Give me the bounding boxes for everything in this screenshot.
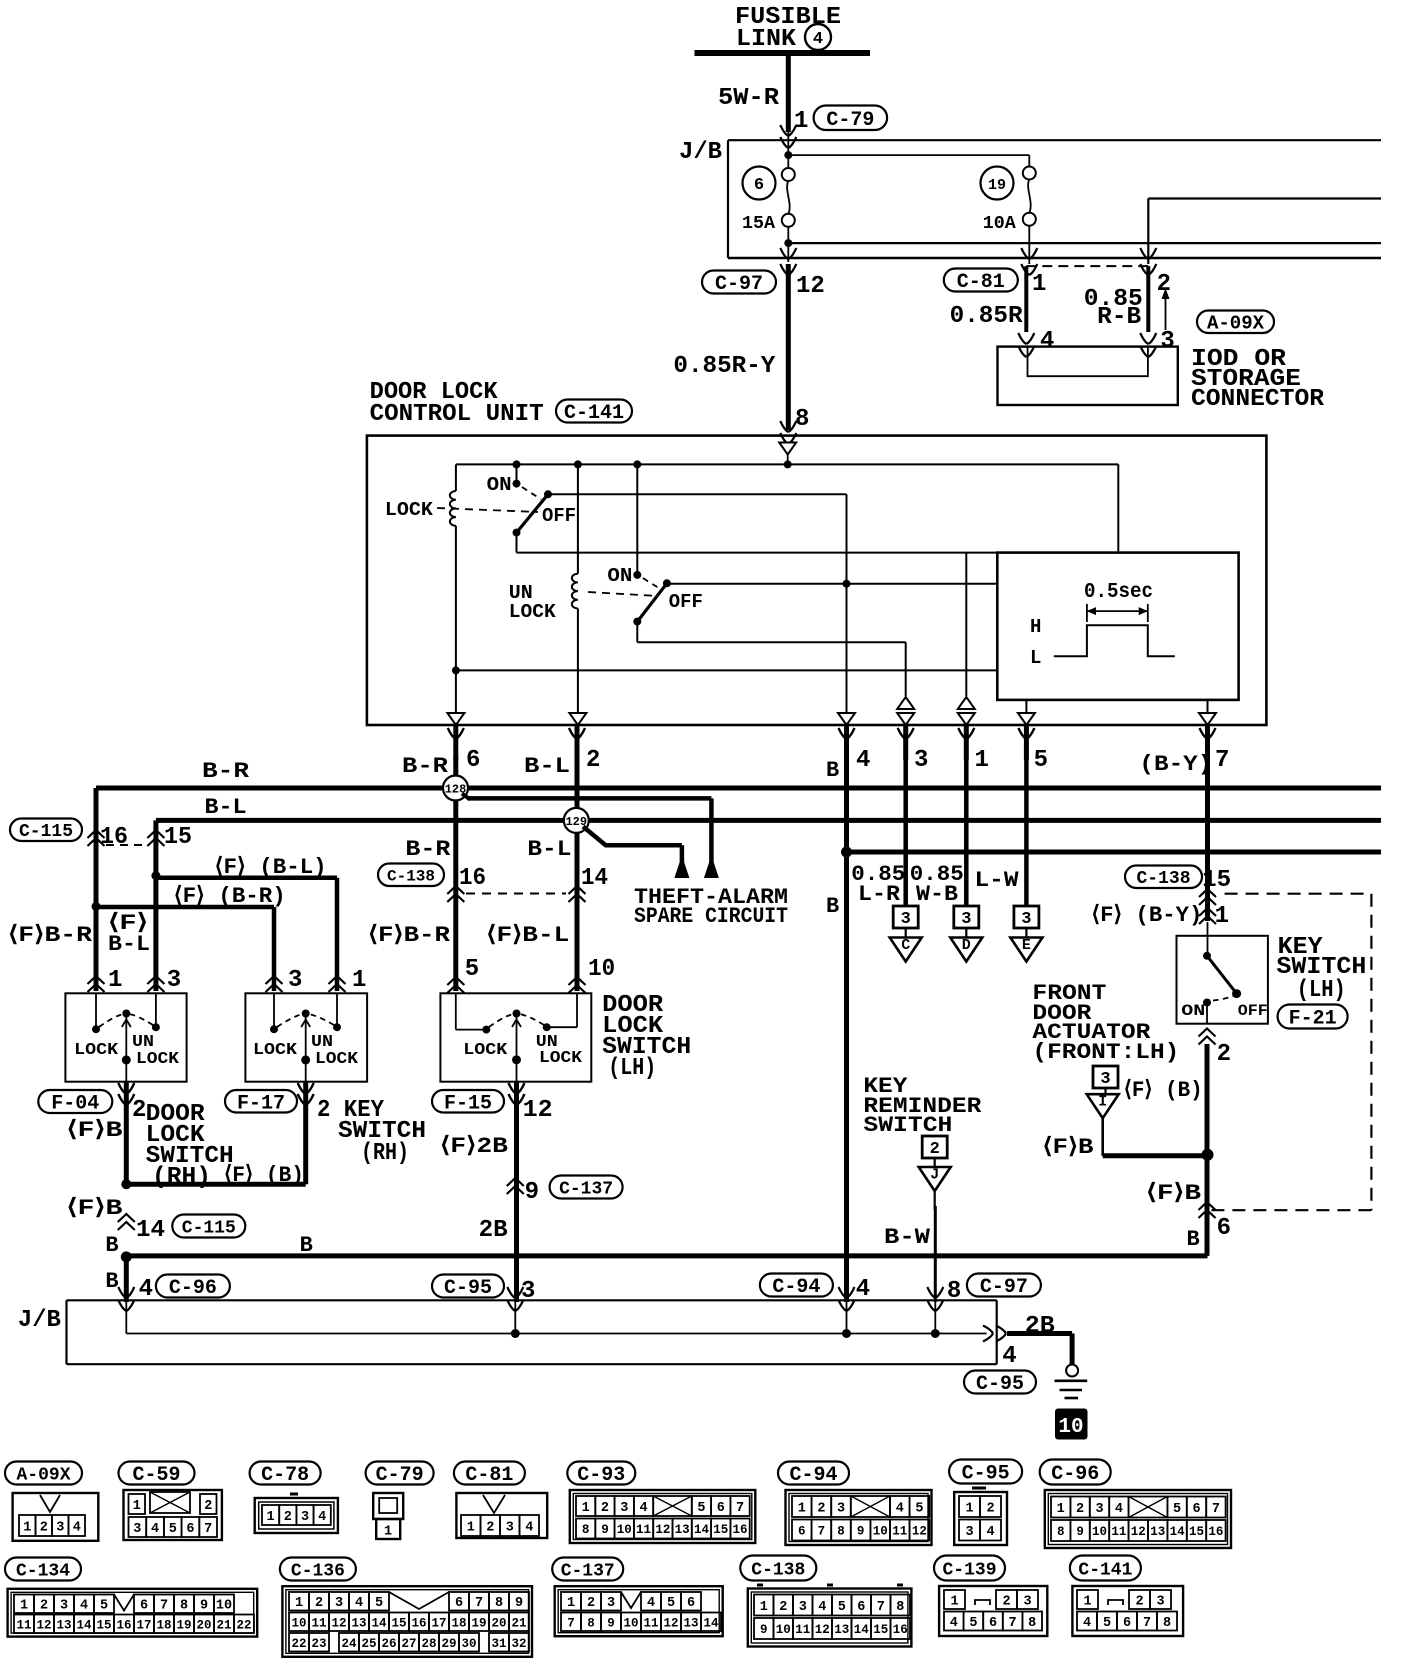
svg-text:B: B xyxy=(105,1233,118,1258)
svg-text:8: 8 xyxy=(1057,1525,1065,1539)
svg-text:4: 4 xyxy=(525,1520,533,1535)
svg-text:C-59: C-59 xyxy=(132,1464,180,1487)
svg-text:OFF: OFF xyxy=(542,505,576,527)
svg-text:C-115: C-115 xyxy=(182,1218,236,1238)
svg-text:2: 2 xyxy=(817,1501,825,1516)
svg-text:OFF: OFF xyxy=(1238,1002,1268,1020)
svg-text:3: 3 xyxy=(799,1600,807,1615)
svg-text:C-137: C-137 xyxy=(561,1561,615,1581)
svg-text:5: 5 xyxy=(465,956,479,983)
svg-text:3: 3 xyxy=(901,910,911,929)
svg-text:C-95: C-95 xyxy=(976,1373,1024,1396)
svg-text:2: 2 xyxy=(986,1501,994,1516)
svg-text:3: 3 xyxy=(607,1596,615,1611)
svg-text:10: 10 xyxy=(216,1599,232,1614)
svg-text:26: 26 xyxy=(381,1637,396,1651)
svg-text:C: C xyxy=(901,937,910,954)
svg-text:3: 3 xyxy=(1100,1070,1110,1089)
svg-text:C-79: C-79 xyxy=(376,1464,424,1487)
svg-text:11: 11 xyxy=(311,1616,326,1630)
svg-text:3: 3 xyxy=(1095,1502,1103,1517)
svg-text:3: 3 xyxy=(620,1501,628,1516)
svg-text:5: 5 xyxy=(1173,1502,1181,1517)
svg-text:20: 20 xyxy=(491,1616,506,1630)
svg-text:C-81: C-81 xyxy=(957,271,1005,294)
svg-text:⟨F⟩ (B-Y): ⟨F⟩ (B-Y) xyxy=(1091,903,1202,928)
svg-text:25: 25 xyxy=(361,1637,376,1651)
svg-text:4: 4 xyxy=(73,1520,81,1535)
svg-text:3: 3 xyxy=(1021,910,1031,929)
svg-text:2: 2 xyxy=(779,1600,787,1615)
svg-text:6: 6 xyxy=(989,1616,997,1631)
svg-text:19: 19 xyxy=(988,177,1006,194)
svg-text:2: 2 xyxy=(1002,1594,1010,1609)
svg-text:F-04: F-04 xyxy=(51,1093,99,1116)
svg-text:11: 11 xyxy=(636,1523,651,1537)
svg-text:L: L xyxy=(1030,647,1041,669)
svg-text:C-96: C-96 xyxy=(169,1277,217,1300)
svg-text:9: 9 xyxy=(525,1179,539,1206)
svg-text:13: 13 xyxy=(351,1616,366,1630)
svg-text:J/B: J/B xyxy=(679,139,722,166)
svg-text:4: 4 xyxy=(896,1501,904,1516)
svg-text:10: 10 xyxy=(291,1616,306,1630)
svg-text:C-138: C-138 xyxy=(751,1560,805,1580)
svg-text:C-79: C-79 xyxy=(826,109,874,132)
svg-text:4: 4 xyxy=(1083,1616,1091,1631)
svg-text:12: 12 xyxy=(815,1623,830,1637)
svg-text:12: 12 xyxy=(36,1618,51,1632)
svg-text:C-138: C-138 xyxy=(1136,869,1190,889)
svg-text:1: 1 xyxy=(467,1520,475,1535)
svg-text:I: I xyxy=(1098,1094,1107,1111)
svg-text:C-138: C-138 xyxy=(387,868,435,886)
svg-text:2: 2 xyxy=(284,1510,292,1525)
svg-text:4: 4 xyxy=(80,1599,88,1614)
svg-text:3: 3 xyxy=(301,1510,309,1525)
svg-text:C-94: C-94 xyxy=(789,1464,837,1487)
svg-text:3: 3 xyxy=(506,1520,514,1535)
svg-text:8: 8 xyxy=(495,1596,503,1611)
svg-text:17: 17 xyxy=(136,1618,151,1632)
svg-text:ON: ON xyxy=(487,474,512,496)
svg-text:B: B xyxy=(826,894,839,919)
svg-text:15: 15 xyxy=(873,1623,888,1637)
svg-text:⟨F⟩ (B): ⟨F⟩ (B) xyxy=(224,1163,304,1188)
svg-text:14: 14 xyxy=(76,1618,92,1632)
svg-text:B-L: B-L xyxy=(524,754,570,779)
svg-text:24: 24 xyxy=(341,1637,357,1651)
svg-text:C-78: C-78 xyxy=(261,1464,309,1487)
svg-text:23: 23 xyxy=(311,1637,326,1651)
svg-text:1: 1 xyxy=(352,967,366,994)
svg-text:LOCK: LOCK xyxy=(509,601,557,623)
svg-text:3: 3 xyxy=(914,747,928,774)
svg-text:15: 15 xyxy=(164,824,192,851)
svg-text:4: 4 xyxy=(139,1276,153,1303)
svg-text:6: 6 xyxy=(1192,1502,1200,1517)
svg-text:J: J xyxy=(930,1166,939,1183)
svg-text:22: 22 xyxy=(291,1637,306,1651)
svg-text:2: 2 xyxy=(601,1501,609,1516)
svg-text:1: 1 xyxy=(384,1525,392,1540)
svg-text:14: 14 xyxy=(694,1523,710,1537)
svg-text:7: 7 xyxy=(1212,1502,1220,1517)
svg-text:4: 4 xyxy=(1115,1502,1123,1517)
svg-text:11: 11 xyxy=(1111,1525,1126,1539)
svg-text:0.5sec: 0.5sec xyxy=(1084,581,1153,604)
svg-text:3: 3 xyxy=(837,1501,845,1516)
svg-text:B: B xyxy=(105,1269,118,1294)
svg-text:6: 6 xyxy=(754,176,764,195)
svg-text:1: 1 xyxy=(133,1499,141,1514)
svg-text:8: 8 xyxy=(587,1616,595,1630)
svg-text:OFF: OFF xyxy=(669,591,703,613)
svg-text:18: 18 xyxy=(451,1616,466,1630)
svg-text:C-93: C-93 xyxy=(577,1464,625,1487)
svg-text:B-W: B-W xyxy=(884,1225,931,1250)
svg-text:6: 6 xyxy=(455,1596,463,1611)
svg-text:2: 2 xyxy=(586,747,600,774)
svg-text:15A: 15A xyxy=(742,214,775,234)
svg-text:4: 4 xyxy=(1002,1343,1016,1370)
svg-text:18: 18 xyxy=(156,1618,171,1632)
svg-text:8: 8 xyxy=(180,1599,188,1614)
svg-text:R-B: R-B xyxy=(1097,304,1141,331)
svg-text:4: 4 xyxy=(1040,328,1054,355)
svg-text:5: 5 xyxy=(838,1600,846,1615)
svg-text:14: 14 xyxy=(581,865,608,892)
svg-text:3: 3 xyxy=(335,1596,343,1611)
svg-text:2: 2 xyxy=(40,1520,48,1535)
svg-text:28: 28 xyxy=(421,1637,436,1651)
svg-text:(B-Y): (B-Y) xyxy=(1139,752,1212,777)
svg-text:7: 7 xyxy=(204,1522,212,1537)
svg-text:5: 5 xyxy=(1103,1616,1111,1631)
svg-text:C-115: C-115 xyxy=(19,822,73,842)
svg-text:10: 10 xyxy=(588,956,615,983)
svg-text:3: 3 xyxy=(288,967,302,994)
svg-text:16: 16 xyxy=(411,1616,426,1630)
svg-text:7: 7 xyxy=(1143,1616,1151,1631)
svg-text:6: 6 xyxy=(186,1522,194,1537)
svg-text:14: 14 xyxy=(854,1623,870,1637)
svg-text:3: 3 xyxy=(1156,1594,1164,1609)
svg-text:6: 6 xyxy=(717,1501,725,1516)
svg-text:12: 12 xyxy=(655,1523,670,1537)
svg-text:B: B xyxy=(1187,1227,1200,1252)
svg-text:9: 9 xyxy=(857,1525,865,1539)
svg-text:10A: 10A xyxy=(983,214,1016,234)
svg-text:6: 6 xyxy=(687,1596,695,1611)
svg-text:5: 5 xyxy=(969,1616,977,1631)
svg-text:⟨F⟩ (B-R): ⟨F⟩ (B-R) xyxy=(174,884,286,909)
svg-text:7: 7 xyxy=(160,1599,168,1614)
svg-text:30: 30 xyxy=(461,1637,476,1651)
svg-text:5: 5 xyxy=(169,1522,177,1537)
svg-text:22: 22 xyxy=(236,1618,251,1632)
svg-text:C-95: C-95 xyxy=(962,1463,1010,1486)
svg-text:LOCK: LOCK xyxy=(136,1050,180,1069)
svg-text:16: 16 xyxy=(459,865,486,892)
svg-text:1: 1 xyxy=(794,108,808,135)
svg-text:C-97: C-97 xyxy=(715,273,763,296)
svg-text:(LH): (LH) xyxy=(1297,977,1346,1004)
svg-text:7: 7 xyxy=(818,1525,826,1539)
svg-text:1: 1 xyxy=(1215,903,1229,930)
svg-text:5: 5 xyxy=(375,1596,383,1611)
svg-text:⟨F⟩ (B-L): ⟨F⟩ (B-L) xyxy=(215,855,327,880)
svg-text:1: 1 xyxy=(975,747,989,774)
svg-text:C-134: C-134 xyxy=(16,1561,70,1581)
svg-text:8: 8 xyxy=(795,406,809,433)
svg-text:31: 31 xyxy=(491,1637,506,1651)
svg-text:H: H xyxy=(1030,616,1041,638)
svg-text:10: 10 xyxy=(776,1623,791,1637)
svg-text:(LH): (LH) xyxy=(608,1055,656,1082)
svg-text:11: 11 xyxy=(643,1616,658,1630)
svg-text:C-96: C-96 xyxy=(1051,1463,1099,1486)
svg-text:3: 3 xyxy=(1160,328,1174,355)
svg-text:27: 27 xyxy=(401,1637,416,1651)
svg-text:3: 3 xyxy=(167,967,181,994)
svg-text:13: 13 xyxy=(675,1523,690,1537)
svg-text:1: 1 xyxy=(760,1600,768,1615)
svg-text:14: 14 xyxy=(371,1616,387,1630)
svg-text:13: 13 xyxy=(56,1618,71,1632)
svg-text:1: 1 xyxy=(582,1501,590,1516)
svg-text:⟨F⟩ (B): ⟨F⟩ (B) xyxy=(1124,1078,1203,1103)
svg-text:3: 3 xyxy=(56,1520,64,1535)
svg-text:14: 14 xyxy=(703,1616,719,1630)
svg-text:5: 5 xyxy=(697,1501,705,1516)
svg-text:15: 15 xyxy=(1189,1525,1204,1539)
svg-text:2: 2 xyxy=(315,1596,323,1611)
svg-text:4: 4 xyxy=(318,1510,326,1525)
svg-text:5: 5 xyxy=(100,1599,108,1614)
svg-text:21: 21 xyxy=(511,1616,526,1630)
svg-text:LOCK: LOCK xyxy=(315,1050,359,1069)
svg-text:1: 1 xyxy=(567,1596,575,1611)
svg-text:4: 4 xyxy=(813,30,823,49)
svg-text:8: 8 xyxy=(896,1600,904,1615)
svg-text:9: 9 xyxy=(1076,1525,1084,1539)
svg-text:14: 14 xyxy=(1170,1525,1186,1539)
svg-text:(RH): (RH) xyxy=(361,1140,409,1167)
svg-text:4: 4 xyxy=(986,1525,994,1540)
svg-text:A-09X: A-09X xyxy=(1207,313,1265,335)
svg-text:15: 15 xyxy=(391,1616,406,1630)
svg-text:B: B xyxy=(826,758,839,783)
svg-text:16: 16 xyxy=(893,1623,908,1637)
svg-text:15: 15 xyxy=(96,1618,111,1632)
svg-text:2: 2 xyxy=(1135,1594,1143,1609)
svg-text:C-136: C-136 xyxy=(291,1561,345,1581)
svg-text:12: 12 xyxy=(796,273,825,300)
svg-text:⟨F⟩B: ⟨F⟩B xyxy=(1146,1181,1201,1206)
svg-text:9: 9 xyxy=(515,1596,523,1611)
svg-text:B-L: B-L xyxy=(527,837,571,862)
svg-text:2: 2 xyxy=(1217,1041,1231,1068)
svg-text:3: 3 xyxy=(1023,1594,1031,1609)
svg-text:C-137: C-137 xyxy=(559,1179,613,1199)
svg-text:W-B: W-B xyxy=(916,882,958,907)
svg-text:4: 4 xyxy=(856,747,870,774)
svg-text:12: 12 xyxy=(331,1616,346,1630)
svg-text:1: 1 xyxy=(267,1510,275,1525)
svg-text:6: 6 xyxy=(466,747,480,774)
svg-text:12: 12 xyxy=(523,1097,553,1124)
svg-text:5: 5 xyxy=(667,1596,675,1611)
svg-text:1: 1 xyxy=(798,1501,806,1516)
svg-text:13: 13 xyxy=(834,1623,849,1637)
svg-text:B-R: B-R xyxy=(405,837,451,862)
svg-text:21: 21 xyxy=(216,1618,231,1632)
svg-text:6: 6 xyxy=(1217,1215,1231,1242)
svg-text:C-94: C-94 xyxy=(772,1276,820,1299)
svg-text:F-15: F-15 xyxy=(444,1092,492,1115)
svg-text:9: 9 xyxy=(601,1523,609,1537)
svg-text:12: 12 xyxy=(1131,1525,1146,1539)
svg-text:C-141: C-141 xyxy=(564,402,624,425)
svg-text:9: 9 xyxy=(200,1599,208,1614)
svg-text:6: 6 xyxy=(798,1525,806,1539)
svg-text:2: 2 xyxy=(132,1097,146,1124)
svg-text:29: 29 xyxy=(441,1637,456,1651)
svg-text:8: 8 xyxy=(837,1525,845,1539)
svg-text:10: 10 xyxy=(1058,1416,1083,1439)
svg-text:2: 2 xyxy=(1076,1502,1084,1517)
svg-text:(FRONT:LH): (FRONT:LH) xyxy=(1032,1040,1179,1065)
svg-text:J/B: J/B xyxy=(18,1307,61,1334)
svg-text:LOCK: LOCK xyxy=(385,499,434,521)
svg-text:7: 7 xyxy=(1009,1616,1017,1631)
svg-text:F-21: F-21 xyxy=(1289,1008,1337,1031)
svg-text:2B: 2B xyxy=(479,1217,508,1244)
svg-text:8: 8 xyxy=(1163,1616,1171,1631)
svg-text:4: 4 xyxy=(647,1596,655,1611)
svg-text:2: 2 xyxy=(930,1140,940,1159)
svg-text:CONNECTOR: CONNECTOR xyxy=(1191,386,1325,413)
svg-text:1: 1 xyxy=(1032,271,1046,298)
svg-text:B-R: B-R xyxy=(202,759,250,784)
svg-text:1: 1 xyxy=(1057,1502,1065,1517)
svg-text:LOCK: LOCK xyxy=(463,1041,508,1060)
svg-text:B-L: B-L xyxy=(108,932,150,957)
svg-text:B-R: B-R xyxy=(402,754,449,779)
svg-text:3: 3 xyxy=(133,1522,141,1537)
svg-text:C-97: C-97 xyxy=(980,1276,1028,1299)
svg-text:4: 4 xyxy=(818,1600,826,1615)
svg-text:1: 1 xyxy=(950,1594,958,1609)
svg-text:12: 12 xyxy=(663,1616,678,1630)
svg-text:⟨F⟩B-L: ⟨F⟩B-L xyxy=(486,923,569,948)
svg-text:11: 11 xyxy=(16,1618,31,1632)
svg-text:7: 7 xyxy=(567,1616,575,1630)
svg-text:3: 3 xyxy=(60,1599,68,1614)
svg-text:5W-R: 5W-R xyxy=(718,85,780,112)
svg-text:10: 10 xyxy=(617,1523,632,1537)
svg-text:5: 5 xyxy=(1034,747,1048,774)
svg-text:D: D xyxy=(962,937,971,954)
svg-text:LINK: LINK xyxy=(736,26,797,53)
svg-text:16: 16 xyxy=(1208,1525,1223,1539)
svg-text:20: 20 xyxy=(196,1618,211,1632)
svg-text:C-95: C-95 xyxy=(444,1277,492,1300)
svg-text:9: 9 xyxy=(607,1616,615,1630)
svg-text:1: 1 xyxy=(1083,1594,1091,1609)
svg-text:10: 10 xyxy=(1092,1525,1107,1539)
svg-text:4: 4 xyxy=(151,1522,159,1537)
svg-text:SPARE CIRCUIT: SPARE CIRCUIT xyxy=(634,904,788,929)
svg-text:6: 6 xyxy=(1123,1616,1131,1631)
svg-text:16: 16 xyxy=(733,1523,748,1537)
svg-text:SWITCH: SWITCH xyxy=(863,1113,952,1138)
svg-text:LOCK: LOCK xyxy=(74,1041,119,1060)
svg-text:1: 1 xyxy=(23,1520,31,1535)
svg-text:0.85R-Y: 0.85R-Y xyxy=(673,353,776,380)
svg-text:L-R: L-R xyxy=(858,882,901,907)
svg-text:CONTROL UNIT: CONTROL UNIT xyxy=(370,401,544,428)
svg-text:⟨F⟩2B: ⟨F⟩2B xyxy=(440,1134,508,1159)
svg-text:1: 1 xyxy=(295,1596,303,1611)
svg-text:8: 8 xyxy=(1028,1616,1036,1631)
svg-text:4: 4 xyxy=(856,1276,870,1303)
svg-text:7: 7 xyxy=(736,1501,744,1516)
svg-text:8: 8 xyxy=(582,1523,590,1537)
svg-text:4: 4 xyxy=(355,1596,363,1611)
svg-text:C-81: C-81 xyxy=(465,1464,513,1487)
svg-text:5: 5 xyxy=(915,1501,923,1516)
svg-text:13: 13 xyxy=(1150,1525,1165,1539)
svg-text:C-139: C-139 xyxy=(942,1560,996,1580)
svg-text:2: 2 xyxy=(486,1520,494,1535)
svg-text:2: 2 xyxy=(40,1599,48,1614)
svg-text:B-L: B-L xyxy=(205,795,247,820)
svg-text:14: 14 xyxy=(136,1217,165,1244)
svg-text:ON: ON xyxy=(1181,1002,1205,1020)
svg-text:1: 1 xyxy=(965,1501,973,1516)
svg-text:12: 12 xyxy=(912,1525,927,1539)
svg-text:⟨F⟩B: ⟨F⟩B xyxy=(1043,1135,1094,1160)
svg-text:7: 7 xyxy=(877,1600,885,1615)
svg-text:4: 4 xyxy=(639,1501,647,1516)
svg-text:10: 10 xyxy=(873,1525,888,1539)
svg-text:11: 11 xyxy=(892,1525,907,1539)
svg-text:L-W: L-W xyxy=(975,868,1020,893)
svg-text:0.85R: 0.85R xyxy=(950,303,1024,330)
svg-text:⟨F⟩B: ⟨F⟩B xyxy=(67,1196,123,1221)
svg-text:A-09X: A-09X xyxy=(16,1465,70,1485)
svg-text:8: 8 xyxy=(947,1278,961,1305)
svg-text:9: 9 xyxy=(760,1623,768,1637)
svg-text:⟨F⟩B: ⟨F⟩B xyxy=(67,1118,123,1143)
svg-text:4: 4 xyxy=(950,1616,958,1631)
svg-text:6: 6 xyxy=(140,1599,148,1614)
svg-text:15: 15 xyxy=(713,1523,728,1537)
svg-text:C-141: C-141 xyxy=(1078,1560,1132,1580)
svg-text:16: 16 xyxy=(116,1618,131,1632)
svg-text:19: 19 xyxy=(471,1616,486,1630)
svg-text:LOCK: LOCK xyxy=(539,1049,583,1068)
svg-text:⟨F⟩B-R: ⟨F⟩B-R xyxy=(8,923,93,948)
svg-text:3: 3 xyxy=(961,910,971,929)
svg-text:2: 2 xyxy=(204,1499,212,1514)
svg-text:⟨F⟩B-R: ⟨F⟩B-R xyxy=(368,923,451,948)
svg-text:3: 3 xyxy=(965,1525,973,1540)
svg-text:19: 19 xyxy=(176,1618,191,1632)
svg-text:1: 1 xyxy=(20,1599,28,1614)
